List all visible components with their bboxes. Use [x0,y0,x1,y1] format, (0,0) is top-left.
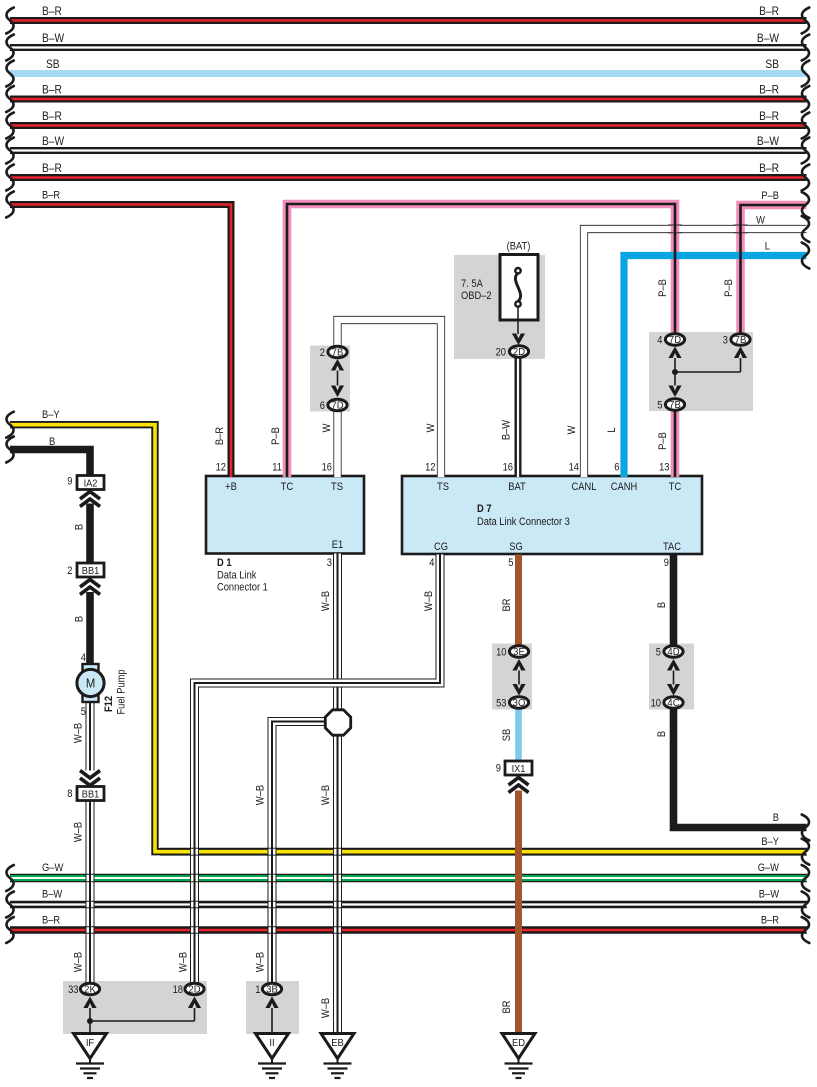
wire G-W bus at y=878 [6,862,809,891]
svg-text:E1: E1 [332,539,344,551]
svg-text:W–B: W–B [255,785,267,805]
svg-text:9: 9 [496,763,501,775]
svg-text:4D: 4D [667,647,679,658]
svg-text:W–B: W–B [320,785,332,805]
connector 4D pin 5 [656,646,683,659]
connector block shading 2K/2D [63,981,207,1034]
svg-text:W: W [756,215,765,227]
wire W-B E1 crossing overlay at junction crossing [332,679,343,688]
svg-text:7B: 7B [332,347,344,358]
svg-text:2D: 2D [513,347,525,358]
wire P-B from connector 7B pin 5 to D7 TC pin 13 [657,412,675,478]
svg-text:F12: F12 [103,696,115,712]
svg-text:L: L [765,241,770,253]
svg-text:W–B: W–B [320,591,332,611]
svg-text:W: W [425,423,437,432]
svg-text:3: 3 [327,557,332,569]
connector block shading 7D/7B/7B (right) [649,332,753,411]
chevron pass-through below BB1 pin 2 [80,580,100,588]
svg-text:G–W: G–W [758,862,780,874]
svg-text:3E: 3E [513,647,525,658]
wire W from connector 7B pin 2 to D7 TS pin 12 [338,320,442,477]
svg-text:B–W: B–W [757,32,780,45]
connector D7 name label [477,503,570,528]
svg-text:Connector 1: Connector 1 [217,582,268,594]
svg-text:20: 20 [496,347,507,359]
svg-text:7B: 7B [735,335,747,346]
svg-text:B–R: B–R [42,110,62,123]
svg-text:M: M [86,676,95,691]
svg-text:P–B: P–B [761,190,779,202]
connector 7D pin 6 [320,399,347,412]
svg-text:L: L [606,427,618,432]
svg-text:B–W: B–W [759,889,780,901]
wire B-R bus to D1 +B pin 12 [6,190,231,477]
connector block shading 3B [246,981,299,1034]
svg-text:B–R: B–R [761,915,779,927]
connector 2K pin 33 [68,983,99,996]
svg-text:9: 9 [67,476,72,488]
svg-text:B–R: B–R [42,5,62,18]
connector IA2 pin 9 [67,476,104,490]
wire BR from D7 SG pin 5 to connector 3E pin 10 [501,555,518,646]
connector 2D pin 20 (fuse to D7 BAT) [496,346,529,359]
svg-text:B–R: B–R [759,5,779,18]
svg-text:Data Link: Data Link [217,570,257,582]
svg-text:3Q: 3Q [513,698,526,709]
svg-text:8: 8 [67,788,72,800]
svg-text:B: B [74,616,86,622]
wire B-Y bus edge overlay lines [160,847,807,849]
wire B-R bus at y=125.5 [6,110,809,138]
connector 7B pin 3 [723,334,750,347]
svg-text:G–W: G–W [42,862,64,874]
wire W bus edge overlay at P-B crossings [668,224,682,226]
svg-text:TAC: TAC [663,541,681,553]
svg-text:B–R: B–R [42,915,60,927]
svg-text:2: 2 [320,347,325,359]
svg-text:B–R: B–R [42,190,60,202]
svg-text:13: 13 [659,462,670,474]
svg-text:B: B [656,602,668,608]
chevron pass-through above BB1 pin 8 [80,771,100,779]
wire P-B from D1 TC pin 11 across to connector 7D pin 4 [270,204,675,477]
motor F12 fuel pump [77,664,128,715]
svg-text:CANH: CANH [611,481,637,493]
svg-text:7. 5A: 7. 5A [461,278,483,290]
svg-text:B: B [49,436,55,448]
svg-text:B–W: B–W [501,420,513,441]
arrow down into 7D pin 6 [331,386,344,398]
junction dot [672,369,678,375]
wire G-W bus edge overlay lines [10,873,807,875]
wire B-Y from left edge down and to right edge [6,409,809,864]
connector 7B pin 5 [657,399,684,412]
svg-text:W–B: W–B [73,723,85,743]
arrow up into 4D pin 5 [667,659,680,671]
svg-text:3: 3 [723,335,728,347]
wire link 4D to 4C [673,671,675,685]
wire link 7B to 7D [337,371,339,386]
svg-text:11: 11 [272,462,282,474]
svg-text:W: W [321,423,333,432]
svg-text:33: 33 [68,984,79,996]
wire B-R bus at y=99 [6,84,809,112]
svg-text:B–R: B–R [759,162,779,175]
wire link 3E to 3Q [518,671,520,685]
wire B-W bus at y=904.5 [6,889,809,918]
svg-text:EB: EB [331,1038,344,1050]
wire B chain IA2 to BB1 to fuel pump [74,504,90,719]
svg-text:B–R: B–R [42,162,62,175]
wire B-R bus edge overlay lines [10,926,807,928]
svg-text:B–R: B–R [214,427,226,445]
connector 2D pin 18 [173,983,204,996]
connector 7D pin 4 [657,334,684,347]
wire P-B black core overlay over L crossing (x=740.5) [739,252,742,260]
svg-text:OBD–2: OBD–2 [461,290,492,302]
svg-text:IF: IF [86,1038,94,1050]
svg-text:BB1: BB1 [82,789,100,801]
arrow down into 4C pin 10 [667,684,680,696]
fuse output arrow into connector 2D [512,334,525,346]
connector BB1 pin 8 [67,787,104,801]
svg-text:TC: TC [669,481,681,493]
ground EB [321,1034,354,1059]
fuse 7.5A OBD-2 [461,241,538,334]
svg-text:10: 10 [496,647,507,659]
arrow up into 7D pin 4 [668,347,681,359]
svg-text:SB: SB [46,58,60,71]
wire W from D1 TS pin 16 up to connector 7D pin 6 [321,412,337,478]
svg-text:5: 5 [81,706,86,718]
svg-text:B–W: B–W [42,135,65,148]
svg-text:B: B [773,812,779,824]
svg-text:SB: SB [765,58,779,71]
ground II [256,1034,289,1059]
svg-text:4: 4 [657,335,662,347]
wire link branch to 2D [90,1020,195,1022]
wire W-B from D1 E1 pin 3 down through junction to ground EB [320,554,337,1034]
svg-text:5: 5 [656,647,661,659]
svg-text:IA2: IA2 [84,478,98,490]
svg-text:P–B: P–B [657,432,669,450]
svg-text:12: 12 [216,462,227,474]
junction dot at IF splice [87,1018,93,1024]
connector block shading 3E/3Q [492,644,532,710]
svg-text:5: 5 [657,400,662,412]
connector 3B pin 1 [255,983,281,996]
wire W-B from D7 CG pin 4 across to connector 2D pin 18 [178,555,440,983]
svg-text:5: 5 [508,557,513,569]
svg-text:B: B [656,731,668,737]
wire BR from IX1 to ground ED [501,791,518,1034]
svg-text:16: 16 [503,462,514,474]
svg-text:D 7: D 7 [477,503,492,515]
chevron pass-through below IA2 [80,492,100,500]
svg-text:W–B: W–B [255,952,267,972]
wire B-R bus at y=930 [6,915,809,943]
wire link 3B to ground II [271,1008,273,1034]
wire B from D7 TAC pin 9 through 4D/4C to right edge [656,555,809,841]
svg-text:2K: 2K [84,984,96,995]
svg-text:B–W: B–W [42,889,63,901]
wire P-B black core overlay over L crossing (x=675) [674,252,677,260]
arrow up into 2K pin 33 [83,997,96,1009]
connector D1 name label [217,557,268,593]
svg-text:B–W: B–W [42,32,65,45]
wire B-R bus at y=20.5 [6,5,809,33]
arrow down into 3Q pin 53 [512,684,525,696]
svg-text:B–R: B–R [759,110,779,123]
wire link 2K to ground IF [89,1008,91,1034]
wire B-W from fuse connector 2D to D7 BAT pin 16 [501,358,518,477]
svg-text:W: W [566,425,578,434]
svg-text:6: 6 [614,462,619,474]
svg-text:TC: TC [281,481,293,493]
svg-text:BAT: BAT [508,481,525,493]
wire SB bus at y=73.5 [6,58,809,86]
svg-text:P–B: P–B [723,279,735,297]
arrow up into 3E pin 10 [512,659,525,671]
arrow down into 7B pin 5 [668,386,681,398]
svg-text:W–B: W–B [320,998,332,1018]
wire B from left edge to connector IA2 pin 9 [6,436,90,476]
svg-text:W–B: W–B [73,952,85,972]
svg-text:(BAT): (BAT) [507,241,531,253]
connector 3E pin 10 [496,646,528,659]
svg-text:12: 12 [425,462,436,474]
svg-text:D 1: D 1 [217,557,232,569]
arrow up into 2D pin 18 [188,997,201,1009]
svg-text:Fuel Pump: Fuel Pump [116,669,128,714]
svg-text:53: 53 [496,698,507,710]
svg-text:4: 4 [429,557,434,569]
wire W-B branch from junction to connector 3B pin 1 [255,722,330,983]
svg-text:CANL: CANL [572,481,597,493]
connector 3Q pin 53 [496,697,528,710]
svg-text:W–B: W–B [178,952,190,972]
connector 4C pin 10 [651,697,683,710]
svg-text:BB1: BB1 [82,565,100,577]
svg-text:B–R: B–R [42,84,62,97]
arrow up into 7B pin 2 [331,359,344,371]
svg-text:4: 4 [81,652,86,664]
connector D1 Data Link Connector 1 box [206,476,364,554]
svg-text:3B: 3B [266,984,278,995]
connector block shading 4D/4C [649,644,694,710]
svg-text:B–Y: B–Y [761,836,779,848]
svg-text:+B: +B [225,481,237,493]
svg-text:ED: ED [512,1038,525,1050]
connector IX1 pin 9 [496,761,532,775]
svg-text:7B: 7B [669,400,681,411]
svg-text:10: 10 [651,698,662,710]
svg-text:B–W: B–W [757,135,780,148]
svg-text:BR: BR [501,599,513,612]
junction octagon (ground splice) [325,710,350,735]
wire B-R bus at y=177.5 [6,162,809,190]
svg-text:B–Y: B–Y [42,409,60,421]
wire B-W bus edge overlay lines [10,900,807,902]
connector 7B pin 2 [320,346,347,359]
svg-text:CG: CG [434,541,448,553]
svg-text:B: B [74,524,86,530]
chevron pass-through below IX1 [509,778,529,786]
svg-text:1: 1 [255,984,260,996]
svg-text:9: 9 [664,557,669,569]
svg-text:W–B: W–B [73,822,85,842]
ground ED [502,1034,535,1059]
svg-text:P–B: P–B [270,427,282,445]
svg-text:7D: 7D [331,400,343,411]
svg-text:6: 6 [320,400,325,412]
svg-text:2: 2 [67,565,72,577]
connector BB1 pin 2 [67,563,104,577]
connector D7 Data Link Connector 3 box [402,476,702,554]
wire P-B from right edge to connector 7B pin 3 [723,190,809,333]
wire W from right edge to D7 CANL pin 14 [566,215,809,477]
svg-text:W–B: W–B [423,591,435,611]
svg-text:14: 14 [569,462,580,474]
wire W-B from fuel pump through BB1 pin 8 to connector 2K pin 33 [73,701,90,983]
svg-text:7D: 7D [669,335,681,346]
svg-text:TS: TS [437,481,449,493]
svg-text:P–B: P–B [657,279,669,297]
wire link junction to 7D/7B [675,358,741,386]
wire SB from connector 3Q pin 53 to IX1 pin 9 [501,709,518,761]
svg-text:II: II [269,1038,274,1050]
svg-text:BR: BR [501,1001,513,1014]
svg-text:SB: SB [501,729,513,742]
svg-text:18: 18 [173,984,184,996]
svg-text:4C: 4C [667,698,679,709]
svg-text:SG: SG [509,541,523,553]
ground IF [74,1034,107,1059]
svg-text:B–R: B–R [759,84,779,97]
svg-text:IX1: IX1 [512,763,526,775]
svg-text:Data Link Connector 3: Data Link Connector 3 [477,516,570,528]
fuse block background shading [454,255,545,359]
svg-text:2D: 2D [188,984,200,995]
svg-text:16: 16 [322,462,333,474]
svg-text:TS: TS [331,481,343,493]
wire B-W bus at y=150.5 [6,135,809,163]
arrow up into 3B pin 1 [265,997,278,1009]
connector block shading 7B/7D (left) [310,346,350,412]
wire B-W bus at y=47.5 [6,32,809,60]
wire L from right edge to D7 CANH pin 6 [606,241,809,477]
arrow up into 7B pin 3 [734,347,747,359]
